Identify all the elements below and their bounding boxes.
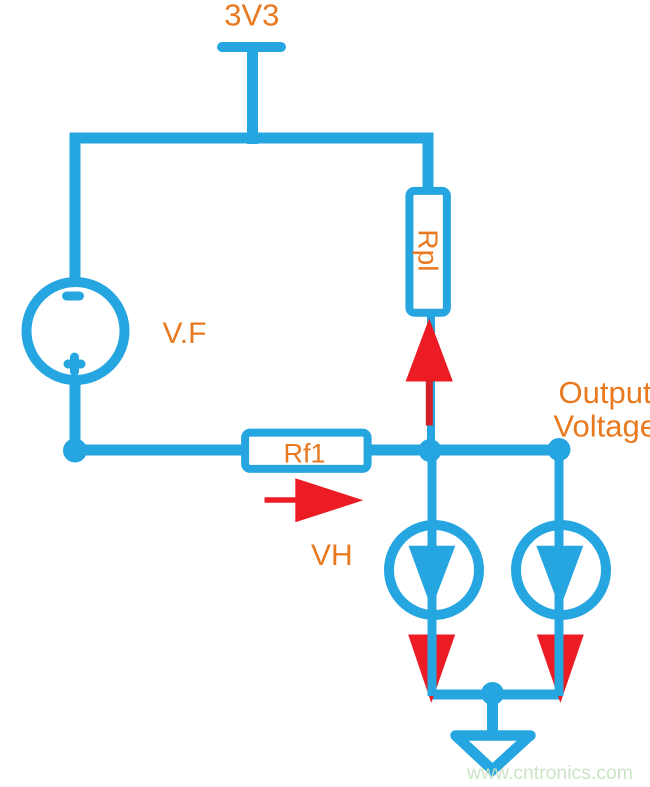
junction dot right (548, 438, 571, 461)
svg-text:3V3: 3V3 (224, 0, 279, 32)
wire top loop (75, 138, 428, 284)
current source left circle (389, 525, 479, 615)
svg-text:VH: VH (311, 539, 353, 572)
red arrow VH (265, 497, 299, 503)
junction dot left (63, 439, 87, 463)
red arrow left current source (408, 635, 455, 704)
plus sign (68, 360, 81, 369)
wire Rpl to junction (427, 312, 435, 450)
wire bottom horizontal (431, 690, 560, 700)
wire below V.F (70, 377, 81, 450)
junction dot center (419, 439, 442, 462)
resistor Rf1 box (245, 433, 368, 469)
svg-text:V.F: V.F (163, 317, 207, 350)
svg-text:Rpl: Rpl (412, 229, 443, 271)
ground bar (456, 730, 531, 741)
svg-text:Voltage: Voltage (554, 409, 650, 444)
svg-text:www.cntronics.com: www.cntronics.com (466, 762, 633, 784)
svg-text:Output: Output (559, 375, 650, 410)
wire main horizontal (75, 445, 559, 456)
resistor Rpl box (409, 191, 447, 313)
blue triangle right current source (536, 546, 583, 609)
svg-text:Rf1: Rf1 (283, 438, 325, 468)
minus sign (67, 292, 80, 301)
power bar 3V3 (222, 42, 281, 52)
voltage source V.F circle (27, 282, 125, 380)
wire through right current source (555, 450, 564, 696)
red arrow right current source (537, 635, 584, 704)
red arrow up at Rpl (406, 318, 453, 381)
ground triangle (456, 736, 531, 771)
current source right circle (516, 525, 606, 615)
blue triangle left current source (409, 546, 456, 609)
wire ground stem (487, 692, 498, 735)
wire through left current source (428, 450, 437, 696)
wire power stem (247, 47, 258, 144)
junction dot bottom (481, 682, 504, 705)
